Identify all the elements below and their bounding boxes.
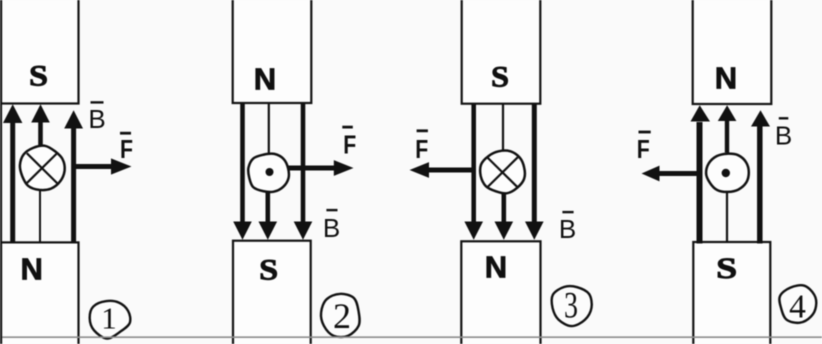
svg-text:S: S bbox=[29, 60, 48, 93]
option number 2 circle bbox=[321, 294, 360, 337]
label F with overbar panel 1 bbox=[120, 132, 133, 164]
conductor cross-section current out of page panel 4 bbox=[706, 154, 749, 192]
label B with overbar panel 3 bbox=[559, 211, 576, 244]
option number 3 circle bbox=[552, 285, 592, 326]
label F with overbar panel 4 bbox=[637, 131, 651, 164]
svg-text:4: 4 bbox=[789, 288, 806, 325]
B field arrow up middle panel 4 bbox=[718, 105, 737, 152]
left border line bbox=[0, 0, 2, 344]
B field arrow up middle panel 1 bbox=[31, 104, 50, 147]
conductor cross-section current into page panel 3 bbox=[480, 151, 525, 194]
svg-text:S: S bbox=[259, 253, 278, 286]
svg-text:1: 1 bbox=[101, 301, 117, 336]
svg-text:B: B bbox=[88, 104, 105, 134]
grey horizontal rule bottom bbox=[0, 336, 822, 338]
force arrow F left panel 3 bbox=[410, 162, 474, 178]
conductor cross-section current out of page panel 2 bbox=[248, 154, 289, 192]
magnet pole N top panel 4 bbox=[693, 0, 772, 104]
svg-text:N: N bbox=[254, 61, 276, 96]
B field arrow up left panel 1 bbox=[3, 104, 22, 243]
force arrow F right panel 1 bbox=[74, 158, 132, 174]
svg-text:B: B bbox=[775, 120, 792, 150]
wire lead below conductor panel 1 bbox=[39, 190, 41, 244]
svg-text:N: N bbox=[21, 251, 43, 286]
svg-text:B: B bbox=[323, 213, 340, 243]
label B with overbar panel 4 bbox=[775, 117, 792, 150]
B field arrow down middle panel 3 bbox=[495, 193, 514, 240]
B field arrow down left panel 3 bbox=[464, 104, 483, 240]
option number 1 circle bbox=[90, 301, 131, 339]
force arrow F left panel 4 bbox=[642, 166, 701, 182]
magnet pole S bottom panel 2 bbox=[233, 241, 311, 344]
B field arrow up left panel 4 bbox=[691, 105, 711, 243]
label B with overbar panel 2 bbox=[323, 209, 340, 243]
svg-text:F: F bbox=[120, 134, 133, 164]
svg-text:N: N bbox=[485, 250, 507, 285]
B field arrow down left panel 2 bbox=[233, 104, 252, 240]
label F with overbar panel 3 bbox=[415, 129, 428, 164]
wire lead above conductor panel 3 bbox=[502, 104, 504, 151]
magnet pole S top panel 1 bbox=[1, 0, 79, 104]
magnet pole S top panel 3 bbox=[462, 0, 541, 104]
svg-text:2: 2 bbox=[333, 296, 351, 336]
wire lead above conductor panel 2 bbox=[268, 104, 270, 153]
force arrow F right panel 2 bbox=[288, 160, 354, 176]
svg-text:3: 3 bbox=[564, 285, 578, 326]
svg-text:B: B bbox=[559, 214, 576, 244]
svg-text:F: F bbox=[343, 130, 356, 160]
B field arrow down right panel 3 bbox=[525, 104, 544, 240]
option number 4 circle bbox=[779, 285, 816, 325]
svg-text:N: N bbox=[715, 61, 737, 96]
B field arrow down right panel 2 bbox=[294, 104, 313, 240]
B field arrow down middle panel 2 bbox=[259, 193, 278, 240]
B field arrow up right panel 4 bbox=[751, 110, 770, 243]
svg-text:F: F bbox=[637, 134, 650, 164]
magnet pole S bottom panel 4 bbox=[693, 242, 770, 344]
magnet pole N bottom panel 1 bbox=[1, 242, 79, 344]
magnet pole N top panel 2 bbox=[233, 0, 312, 103]
svg-text:S: S bbox=[491, 60, 509, 93]
svg-text:F: F bbox=[415, 134, 428, 164]
label B with overbar panel 1 bbox=[88, 101, 105, 134]
conductor cross-section current into page panel 1 bbox=[20, 146, 65, 190]
magnet pole N bottom panel 3 bbox=[461, 241, 540, 344]
label F with overbar panel 2 bbox=[342, 126, 356, 160]
wire lead below conductor panel 4 bbox=[726, 193, 728, 244]
B field arrow up right panel 1 bbox=[64, 110, 83, 243]
svg-text:S: S bbox=[716, 252, 737, 285]
